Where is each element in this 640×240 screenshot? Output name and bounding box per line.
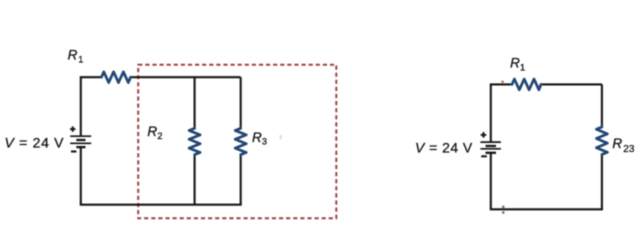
- svg-text:R: R: [510, 56, 520, 71]
- wire: left vertical, corner to battery: [490, 84, 492, 141]
- resistor R1 (horizontal zigzag, right circuit): [512, 79, 541, 90]
- red dashed box around R2 and R3: [138, 65, 336, 219]
- minus sign: [481, 155, 487, 157]
- svg-text:2: 2: [157, 131, 162, 141]
- short plate (-) bottom: [76, 146, 85, 148]
- resistor R23 (vertical zigzag): [596, 127, 607, 155]
- svg-text:V = 24 V: V = 24 V: [415, 139, 473, 155]
- wire: top wire, R1 to top-right corner: [541, 83, 602, 85]
- short plate (-) bottom: [486, 152, 497, 154]
- short plate: [76, 139, 85, 141]
- wire: battery to bottom-left corner: [490, 153, 492, 209]
- wire: bottom wire: [80, 204, 242, 206]
- long plate (+) top: [480, 141, 501, 143]
- battery V (right circuit): [480, 132, 501, 156]
- red tick mark on top wire (right circuit): [501, 81, 503, 84]
- plus sign: [70, 128, 76, 130]
- svg-text:R: R: [612, 136, 622, 151]
- resistor R3 (vertical zigzag): [235, 128, 246, 154]
- svg-text:1: 1: [78, 54, 83, 64]
- long plate: [480, 148, 501, 150]
- wire: middle branch, top wire down to R2: [194, 77, 196, 128]
- resistor R1 (horizontal zigzag): [101, 72, 130, 83]
- wire: right vertical, corner to R23: [601, 84, 603, 127]
- plus sign: [481, 134, 487, 136]
- short plate: [486, 145, 497, 147]
- wire: top wire, left segment before R1: [490, 83, 512, 85]
- minus sign: [71, 150, 76, 152]
- svg-text:23: 23: [623, 144, 635, 155]
- wire: bottom wire: [490, 208, 603, 210]
- battery V (left circuit): [70, 126, 91, 151]
- svg-text:R: R: [68, 47, 78, 62]
- wire: R23 to bottom-right corner: [601, 155, 603, 210]
- resistor R2 (vertical zigzag): [189, 128, 200, 154]
- svg-text:R: R: [147, 124, 157, 139]
- wire: top wire, R1 to top-right corner: [131, 76, 241, 78]
- wire: right branch, R3 down to bottom wire: [240, 155, 242, 205]
- stray faint mark: [280, 135, 282, 140]
- svg-text:3: 3: [262, 137, 267, 147]
- long plate (+) top: [70, 135, 91, 137]
- svg-text:1: 1: [520, 62, 525, 72]
- wire: top wire, left segment before R1: [80, 76, 102, 78]
- red tick marks crossing bottom wire (right circuit): [502, 206, 504, 208]
- wire: middle branch, R2 down to bottom wire: [194, 155, 196, 205]
- svg-text:R: R: [252, 130, 262, 145]
- wire: left vertical, top-left corner to battery top: [80, 77, 82, 136]
- wire: right branch, top wire down to R3: [240, 77, 242, 128]
- long plate: [70, 142, 91, 144]
- wire: battery bottom to bottom-left corner: [80, 147, 82, 205]
- svg-text:V = 24 V: V = 24 V: [5, 135, 65, 151]
